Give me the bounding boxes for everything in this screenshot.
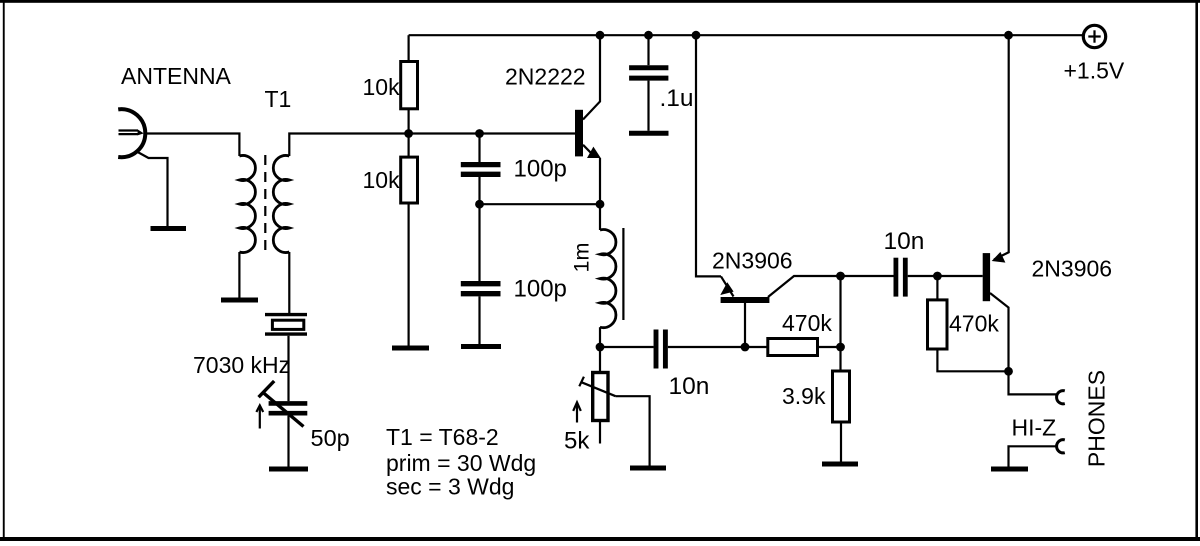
transistor Q3 emitter diagonal <box>994 35 1009 259</box>
transistor Q3 emitter arrow <box>992 252 1006 263</box>
ground (C2) <box>461 344 501 349</box>
svg-text:470k: 470k <box>782 310 832 336</box>
resistor R3 470k <box>768 339 818 356</box>
wire rail to 10k R1 <box>408 35 410 61</box>
node dot Q2 base <box>741 343 750 352</box>
capacitor C5 .1u bottom plate <box>629 76 668 81</box>
node dot collector Q2 line <box>836 272 845 281</box>
svg-text:1m: 1m <box>570 243 594 273</box>
potentiometer 5k bottom stub <box>599 421 601 444</box>
battery terminal +1.5V circle <box>1083 25 1105 47</box>
variable capacitor adjust head bar <box>259 381 275 397</box>
svg-text:7030 kHz: 7030 kHz <box>193 352 290 378</box>
transistor Q1 collector <box>583 35 600 119</box>
antenna symbol <box>118 109 145 157</box>
svg-text:2N2222: 2N2222 <box>505 64 586 90</box>
wire junction to 10n C7 <box>841 275 894 277</box>
wire T1 secondary top to base line <box>289 134 575 157</box>
wire emitter node to 1m coil <box>599 204 601 230</box>
wire C6 to base node of Q2 <box>668 346 768 348</box>
transistor Q1 emitter <box>583 145 594 156</box>
svg-text:+1.5V: +1.5V <box>1064 58 1125 84</box>
svg-text:10n: 10n <box>669 373 710 400</box>
crystal body <box>272 320 303 329</box>
node dot rail Q2 <box>692 31 701 40</box>
svg-text:ANTENNA: ANTENNA <box>121 63 232 89</box>
node dot rail C5 <box>644 31 653 40</box>
wire C1 to mid node <box>478 177 480 204</box>
svg-text:HI-Z: HI-Z <box>1012 415 1057 441</box>
resistor R4 3.9k <box>833 371 850 422</box>
wire lower phone jack to ground <box>1009 446 1057 466</box>
wire R2 to ground <box>408 203 410 346</box>
phone jack upper <box>1057 391 1065 404</box>
transistor Q2 base bar <box>721 297 770 303</box>
ground (R4) <box>822 462 858 467</box>
node dot base line / C1 <box>475 129 484 138</box>
transistor Q1 2N2222 base bar <box>575 110 583 157</box>
svg-text:100p: 100p <box>514 156 567 183</box>
capacitor C2 100p top plate <box>461 281 501 286</box>
capacitor C1 100p top plate <box>461 162 501 167</box>
wire R3 to junction <box>818 346 841 348</box>
wire antenna to T1 primary <box>145 134 239 157</box>
node dot output <box>1004 367 1013 376</box>
wire antenna second terminal <box>136 151 168 226</box>
svg-text:2N3906: 2N3906 <box>1032 256 1113 282</box>
wire mid node to C2 <box>478 204 480 281</box>
crystal bottom plate <box>265 332 307 335</box>
capacitor C6 10n right plate <box>663 330 668 369</box>
wire crystal to variable cap <box>287 336 289 401</box>
capacitor C5 .1u top plate <box>629 65 668 70</box>
capacitor C7 10n left plate <box>894 258 899 297</box>
wire mid node line <box>480 203 601 205</box>
svg-text:5k: 5k <box>564 428 590 455</box>
wire R5 to output node <box>937 349 1008 371</box>
svg-text:3.9k: 3.9k <box>782 383 826 409</box>
battery terminal plus sign <box>1088 30 1100 42</box>
transistor Q3 2N3906 base bar <box>983 253 990 301</box>
ground (C5) <box>629 131 669 136</box>
node dot R3 R4 junction <box>836 343 845 352</box>
resistor R5 470k <box>928 300 948 349</box>
wire rail to Q2 emitter <box>696 35 721 276</box>
ground (R2) <box>392 346 429 351</box>
node dot rail collector Q1 <box>596 31 605 40</box>
transistor Q1 emitter arrow <box>587 147 601 158</box>
inductor 1m coil <box>600 230 616 328</box>
potentiometer 5k arrow <box>573 402 581 422</box>
capacitor C2 100p bottom plate <box>461 291 501 296</box>
wire variable cap to ground <box>287 416 289 467</box>
svg-text:470k: 470k <box>949 311 999 337</box>
wire node to 10n C6 <box>600 346 654 348</box>
capacitor C6 10n left plate <box>654 330 659 369</box>
node dot base line / R1 <box>404 129 413 138</box>
capacitor C1 100p bottom plate <box>461 172 501 177</box>
potentiometer 5k wiper diagonal <box>582 382 616 396</box>
svg-text:100p: 100p <box>514 276 567 303</box>
transistor Q2 base wire <box>744 303 746 347</box>
variable capacitor 50p bottom plate <box>269 411 308 416</box>
wire C2 to ground <box>478 296 480 344</box>
wire R1 to base node <box>408 109 410 157</box>
variable capacitor adjust diagonal <box>263 393 304 427</box>
svg-text:10k: 10k <box>363 74 401 100</box>
svg-text:2N3906: 2N3906 <box>712 248 793 274</box>
transistor Q2 collector <box>768 276 841 297</box>
wire output node to upper phone jack <box>1009 371 1057 394</box>
ground (variable cap) <box>269 467 308 472</box>
svg-text:sec = 3 Wdg: sec = 3 Wdg <box>386 474 514 500</box>
variable capacitor arrow <box>256 405 263 428</box>
ground (5k wiper) <box>630 466 666 471</box>
transistor Q2 2N3906 emitter diagonal <box>721 276 734 296</box>
svg-text:50p: 50p <box>311 425 350 451</box>
wire Q2 collector junction down <box>839 276 841 371</box>
resistor R2 10k <box>401 157 418 203</box>
node dot Q3 base <box>933 272 942 281</box>
svg-text:PHONES: PHONES <box>1084 370 1110 467</box>
top supply rail <box>409 34 1083 36</box>
wire rail to C5 <box>647 35 649 65</box>
node dot emitter Q1 <box>596 200 605 209</box>
node dot C1-C2 mid <box>475 200 484 209</box>
wire C7 to Q3 base <box>908 275 983 277</box>
wire T1 primary bottom to ground <box>238 252 240 298</box>
capacitor C7 10n right plate <box>903 258 908 297</box>
svg-text:prim = 30 Wdg: prim = 30 Wdg <box>386 450 536 476</box>
transistor Q3 collector diagonal <box>990 293 1009 371</box>
resistor R1 10k <box>401 62 418 109</box>
wire Q3 base node to 470k R5 <box>936 276 938 300</box>
svg-text:T1 = T68-2: T1 = T68-2 <box>386 424 499 450</box>
svg-text:.1u: .1u <box>660 85 694 112</box>
ground (phones) <box>991 467 1028 472</box>
transformer T1 secondary winding <box>273 155 289 252</box>
ground (T1 primary) <box>221 298 258 303</box>
ground (antenna) <box>151 226 187 231</box>
wire T1 secondary bottom to crystal <box>288 252 290 313</box>
svg-text:T1: T1 <box>265 86 292 112</box>
wire C5 to ground <box>647 81 649 131</box>
crystal 7030 kHz top plate <box>265 313 307 316</box>
wire 1m coil to node <box>599 327 601 347</box>
wire base line to C1 <box>478 134 480 163</box>
potentiometer 5k body <box>593 373 608 421</box>
node dot rail Q3 <box>1004 31 1013 40</box>
wire R4 to ground <box>840 422 842 462</box>
phone jack lower <box>1057 440 1065 453</box>
potentiometer 5k wiper head tick <box>579 377 584 387</box>
potentiometer 5k top wire <box>599 347 601 373</box>
svg-text:10k: 10k <box>363 167 401 193</box>
svg-text:10n: 10n <box>884 228 925 255</box>
transformer T1 primary winding <box>239 155 255 252</box>
inductor 1m core bar <box>622 228 624 320</box>
node dot 1m bottom <box>596 343 605 352</box>
wire 5k wiper to ground <box>616 396 650 465</box>
transistor Q2 emitter arrow <box>720 282 733 295</box>
T1 core dashed line <box>264 155 266 253</box>
variable capacitor 50p top plate <box>269 401 308 406</box>
